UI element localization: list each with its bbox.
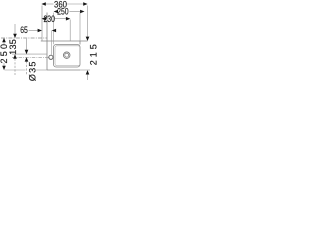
svg-text:65: 65 [20,25,28,35]
svg-text:215: 215 [88,44,98,65]
svg-text:230: 230 [43,14,55,24]
svg-text:Ø35: Ø35 [28,62,38,82]
svg-text:135: 135 [8,39,18,55]
svg-text:250: 250 [57,7,69,17]
